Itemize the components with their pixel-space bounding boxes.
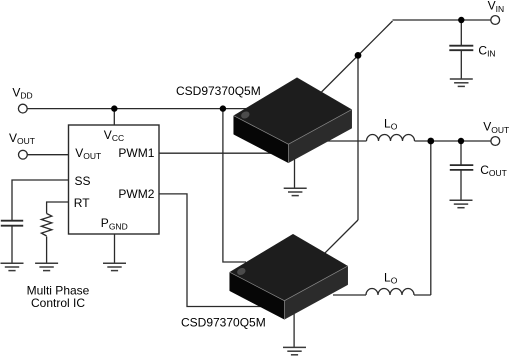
wire VIN diagonal to phase-2 package (324, 220, 359, 254)
svg-text:RT: RT (74, 196, 90, 210)
wire RT (47, 202, 69, 214)
wire VOUT sense to IC (27, 154, 68, 156)
wire PWM1 (159, 152, 271, 154)
wire COUT top (460, 141, 462, 165)
svg-text:CSD97370Q5M: CSD97370Q5M (176, 84, 261, 98)
wire phase-2 switch node (333, 294, 366, 296)
svg-text:VIN: VIN (488, 0, 505, 14)
inductor LO phase 1 (367, 135, 415, 142)
wire inductor2 to junction (414, 294, 431, 296)
ground PGND (103, 263, 126, 270)
node junction VCC/VDD (111, 105, 117, 111)
svg-text:VOUT: VOUT (9, 131, 35, 146)
ground SS (1, 263, 24, 270)
node junction VDD branch (220, 105, 226, 111)
inductor LO phase 2 (366, 289, 414, 296)
svg-text:VOUT: VOUT (483, 120, 509, 135)
ground phase-1 package (284, 188, 307, 195)
svg-text:COUT: COUT (480, 163, 507, 178)
wire PGND to ground (114, 234, 116, 263)
wire PWM2 (159, 194, 262, 307)
wire CIN top (460, 20, 462, 45)
capacitor CIN (449, 46, 473, 51)
power stage U2 CSD97370Q5M (phase 1) (234, 78, 352, 163)
terminal VOUT right (491, 137, 500, 146)
wire VIN vertical branch (357, 55, 359, 220)
ground COUT (450, 200, 473, 207)
svg-text:CSD97370Q5M: CSD97370Q5M (181, 315, 266, 329)
svg-text:LO: LO (384, 116, 398, 131)
svg-text:CIN: CIN (478, 44, 495, 59)
node junction COUT (458, 138, 464, 144)
svg-text:SS: SS (75, 174, 91, 188)
wire RT resistor to ground (46, 237, 48, 264)
svg-text:LO: LO (384, 270, 398, 285)
ground phase-2 package (283, 347, 306, 354)
wire phase-1 package ground (294, 158, 296, 188)
terminal VIN (491, 16, 500, 25)
power stage U3 CSD97370Q5M (phase 2) (230, 234, 348, 319)
wire VDD branch down to phase-2 package (223, 109, 246, 262)
wire SS cap to ground (11, 226, 13, 263)
wire phase-2 package ground (293, 314, 295, 347)
svg-text:VDD: VDD (12, 85, 32, 100)
wire VIN diagonal from phase-1 package (322, 21, 393, 92)
ground RT (35, 263, 58, 270)
wire VCC stub (113, 109, 115, 125)
wire COUT bottom to ground (460, 170, 462, 200)
wire SS (12, 180, 69, 220)
terminal VOUT left (19, 150, 28, 159)
wire CIN bottom to ground (460, 51, 462, 79)
ground CIN (450, 79, 473, 86)
svg-text:Control IC: Control IC (31, 296, 85, 310)
wire VIN rail (393, 19, 491, 21)
IC U1 Multi Phase Control IC box (69, 125, 160, 234)
resistor RT zigzag (41, 214, 51, 236)
wire inductor1 to VOUT rail (415, 140, 491, 142)
wire phase-2 feed up (430, 141, 432, 295)
node junction CIN (458, 17, 464, 23)
node junction VOUT/phase2 (427, 138, 434, 145)
svg-text:PWM1: PWM1 (118, 146, 154, 160)
svg-text:PWM2: PWM2 (118, 187, 154, 201)
wire VDD rail (27, 108, 246, 110)
node junction VIN branch (355, 52, 362, 59)
terminal VDD (18, 104, 27, 113)
capacitor COUT (450, 165, 474, 170)
capacitor SS (soft start) (1, 221, 23, 226)
wire phase-1 switch node (326, 140, 367, 142)
